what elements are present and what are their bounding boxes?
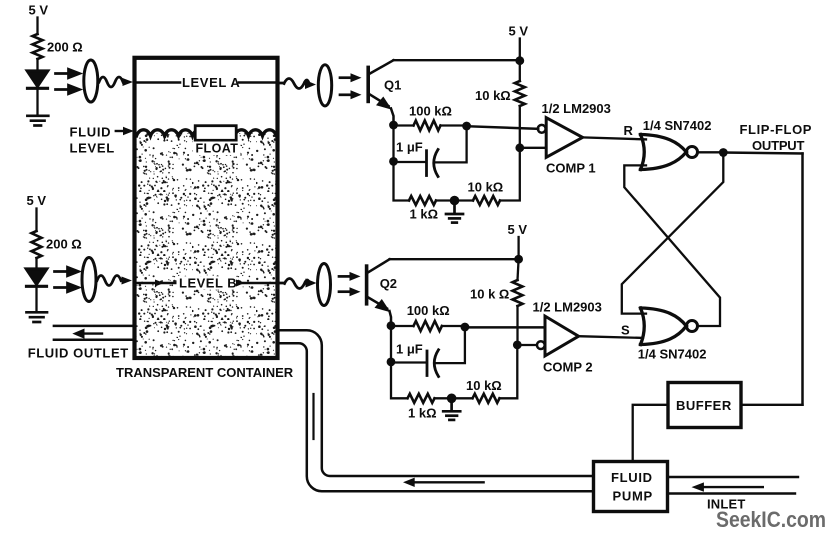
label FLOAT (193, 142, 241, 156)
wire LED D2 to ground (35, 286, 37, 311)
svg-text:1 kΩ: 1 kΩ (408, 406, 437, 421)
LED D2 emission arrows (55, 267, 79, 292)
inlet pipe (right of pump) (668, 477, 799, 494)
wire emitter node down to C2 node (390, 326, 392, 362)
svg-text:FLUID: FLUID (611, 470, 653, 485)
label FLIP-FLOP OUTPUT (740, 122, 813, 153)
float (195, 126, 236, 141)
light arrows into Q1 base (340, 73, 362, 99)
lens (level B, receive side) (318, 264, 331, 306)
wire R1 to LED D1 (36, 59, 38, 71)
light beam out of container at LEVEL B (280, 279, 317, 289)
wire 5V stem to collector node (519, 39, 521, 61)
light beam into container at LEVEL B (97, 276, 132, 286)
resistor R10 10 kohm (473, 394, 500, 403)
arrow fluid level pointer (116, 127, 134, 135)
svg-text:FLUID OUTLET: FLUID OUTLET (28, 346, 129, 361)
resistor R4 100 kohm (414, 121, 441, 131)
label FLUID LEVEL (70, 125, 115, 156)
wire output to buffer right side (742, 404, 803, 406)
wire feedback U2a output to U2b input (cross) (622, 153, 724, 314)
op-amp U1b 1/2 LM2903 COMP 2 (545, 316, 579, 356)
svg-text:1/2 LM2903: 1/2 LM2903 (533, 300, 602, 315)
junction node (comp2 inverting input) (513, 341, 522, 350)
junction node (ground, circuit 1) (450, 196, 460, 206)
svg-text:LEVEL A: LEVEL A (182, 75, 240, 90)
op-amp U1a 1/2 LM2903 COMP 1 (546, 118, 582, 158)
svg-text:10 k Ω: 10 k Ω (470, 287, 509, 302)
comparator U1b bubble (inverting input) (537, 341, 545, 349)
wire R8 to node (442, 325, 465, 327)
pipe flow line (vertical section) (312, 394, 314, 439)
junction node (C1 left) (389, 157, 398, 166)
inlet flow arrow (692, 482, 763, 491)
svg-text:200 Ω: 200 Ω (46, 237, 82, 252)
wire 5V stem to collector node (517, 237, 519, 259)
svg-text:Q2: Q2 (380, 276, 397, 291)
junction node (flip-flop output) (719, 148, 728, 157)
svg-text:OUTPUT: OUTPUT (752, 138, 805, 153)
wire node to comp1 lower input (520, 147, 545, 149)
junction node (Q2 collector / 5V rail) (514, 255, 523, 264)
fluid pump block (594, 462, 668, 512)
svg-text:200 Ω: 200 Ω (47, 40, 83, 55)
svg-text:100 kΩ: 100 kΩ (409, 104, 452, 119)
svg-text:1 μF: 1 μF (396, 342, 423, 357)
junction arrow on LEVEL B line (left) (155, 280, 164, 287)
label LEVEL B (177, 276, 245, 291)
capacitor C1 1uF (427, 150, 439, 177)
wire buffer left to fluid pump (633, 405, 668, 460)
wire R5 to ground node (436, 199, 473, 201)
wire node to R3 (519, 61, 521, 81)
svg-text:1 kΩ: 1 kΩ (410, 207, 439, 222)
ground (LED D2) (27, 312, 48, 322)
pipe flow arrow (bottom run) (403, 478, 484, 487)
LED D1 (27, 71, 48, 89)
wire comp2 lower node down to R9 (500, 345, 518, 398)
resistor R7 10 kohm pull-up (513, 280, 523, 306)
junction node (C2 left) (387, 358, 396, 367)
wire node to comp2 non-inverting input (465, 326, 545, 329)
svg-text:10 kΩ: 10 kΩ (466, 378, 502, 393)
wire C1 node down to bottom rail (394, 161, 410, 200)
comparator U1a bubble (inverting input) (538, 125, 546, 133)
svg-text:S: S (621, 323, 630, 338)
svg-text:1/4 SN7402: 1/4 SN7402 (643, 118, 712, 133)
wire R3 to comp1 lower input node (519, 106, 521, 148)
svg-text:1/2 LM2903: 1/2 LM2903 (542, 101, 611, 116)
resistor R9 1 kohm (408, 394, 435, 403)
ground (circuit 1) (446, 201, 463, 223)
svg-text:1/4 SN7402: 1/4 SN7402 (638, 347, 707, 362)
svg-text:10 kΩ: 10 kΩ (468, 180, 504, 195)
svg-text:FLOAT: FLOAT (196, 142, 239, 156)
resistor R3 10 kohm pull-up (515, 81, 525, 106)
svg-text:PUMP: PUMP (613, 489, 653, 504)
wire comp2 output to NOR gate 2 (S) (579, 336, 643, 338)
wire Q1 emitter node to R4 (394, 124, 414, 126)
svg-text:FLIP-FLOP: FLIP-FLOP (740, 122, 813, 137)
svg-text:Q1: Q1 (384, 78, 401, 93)
node LEVEL B line (137, 282, 276, 285)
light beam into container at LEVEL A (99, 77, 133, 87)
resistor R2 200 ohm (32, 231, 42, 258)
wire R2 to LED D2 (35, 258, 37, 269)
LED D2 (26, 269, 47, 287)
phototransistor Q2 (367, 259, 391, 325)
NOR gate U2b output bubble (687, 321, 698, 332)
pipe container to pump (upper-right wall) (278, 330, 594, 476)
resistor R6 10 kohm (473, 196, 500, 205)
svg-text:COMP 2: COMP 2 (543, 360, 593, 375)
wire Q2 collector to 5V rail (390, 258, 519, 260)
junction node (Q2 emitter) (387, 321, 396, 330)
svg-text:LEVEL B: LEVEL B (179, 276, 237, 291)
fluid outlet pipe (54, 326, 133, 340)
phototransistor Q1 (368, 60, 393, 125)
svg-text:5 V: 5 V (509, 24, 529, 39)
wire Q2 emitter node to R8 (391, 325, 414, 327)
svg-text:SeekIC.com: SeekIC.com (716, 507, 826, 532)
junction node (Q1 emitter) (389, 121, 398, 130)
fluid stipple fill (137, 133, 276, 356)
buffer block (668, 383, 741, 428)
wire 5V to R2 (35, 209, 37, 232)
pipe container to pump (lower-left wall) (278, 343, 594, 491)
svg-text:TRANSPARENT CONTAINER: TRANSPARENT CONTAINER (116, 365, 294, 380)
junction node (R8 / C2 / comp2 input) (461, 323, 470, 332)
lens (level B, transmit side) (82, 258, 96, 302)
svg-text:BUFFER: BUFFER (676, 398, 732, 413)
wire C2 node down to bottom rail (391, 362, 408, 398)
lens (level A, receive side) (318, 65, 331, 106)
wire node to comp1 inverting input (467, 126, 539, 129)
resistor R8 100 kohm (414, 321, 442, 331)
wire R7 to comp2 lower input node (516, 306, 518, 345)
junction node (R4 / C1 / comp1 input) (462, 122, 471, 131)
wire emitter node down to C1 node (392, 125, 394, 161)
capacitor C2 1uF (427, 350, 439, 377)
wire node to C1 (394, 161, 426, 163)
light beam out of container at LEVEL A (280, 79, 317, 90)
outlet flow arrow (72, 329, 102, 339)
wire U2a output to node (698, 151, 724, 153)
wire LED D1 to ground (36, 88, 38, 115)
junction node (ground, circuit 2) (447, 394, 457, 404)
ground (circuit 2) (443, 398, 460, 420)
wire node to C2 (391, 361, 426, 363)
svg-text:100 kΩ: 100 kΩ (407, 303, 450, 318)
wire R4 to node (441, 124, 467, 126)
wire feedback U2b output to U2a input (cross) (624, 165, 720, 326)
ground (LED D1) (27, 116, 48, 126)
transparent container (135, 58, 278, 358)
wire comp1 lower node down to R5 (500, 148, 520, 201)
NOR gate U2a 1/4 SN7402 (641, 135, 687, 170)
lens (level A, transmit side) (84, 60, 98, 102)
light arrows into Q2 base (339, 272, 361, 296)
svg-text:5 V: 5 V (27, 193, 47, 208)
wire C2 right to node (436, 327, 465, 363)
junction node (comp1 non-inverting input) (515, 143, 524, 152)
svg-text:5 V: 5 V (29, 3, 49, 18)
wire comp1 output to NOR gate 1 (583, 137, 646, 139)
LED D1 emission arrows (56, 69, 80, 94)
resistor R1 200 ohm (33, 34, 43, 59)
svg-text:R: R (624, 123, 634, 138)
svg-text:LEVEL: LEVEL (70, 140, 115, 155)
node LEVEL A line (137, 81, 278, 84)
junction node (Q1 collector / 5V rail) (515, 56, 524, 65)
wire R9 to ground node (435, 397, 473, 399)
label FLUID PUMP (611, 470, 653, 504)
NOR gate U2b 1/4 SN7402 (641, 308, 687, 345)
svg-text:FLUID: FLUID (70, 125, 112, 140)
wire flip-flop output down right side (801, 154, 804, 405)
wire node to comp2 bubble (517, 344, 537, 346)
wire node to output right (723, 153, 802, 154)
NOR gate U2a output bubble (687, 147, 698, 158)
wire Q1 collector to 5V rail (394, 59, 520, 61)
svg-text:COMP 1: COMP 1 (546, 161, 596, 176)
wire node to R7 (518, 259, 519, 280)
resistor R5 1 kohm (409, 196, 436, 205)
fluid surface wave (137, 130, 277, 136)
wire C1 right to node (436, 126, 467, 162)
svg-text:5 V: 5 V (508, 222, 528, 237)
svg-text:1 μF: 1 μF (396, 140, 423, 155)
wire 5V to R1 (36, 18, 38, 35)
svg-text:10 kΩ: 10 kΩ (475, 88, 511, 103)
